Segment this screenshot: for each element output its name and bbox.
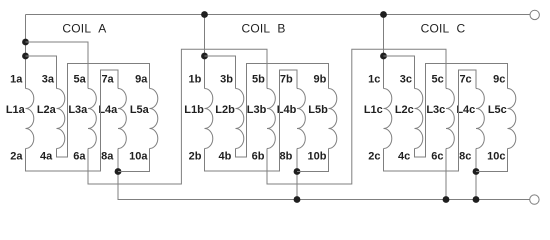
inductor L4b <box>297 89 305 149</box>
terminal T1 (top right) <box>530 10 539 19</box>
wire: 2b to 7b (L1b bottom to L4b top) <box>205 70 298 171</box>
svg-text:5a: 5a <box>74 73 87 85</box>
wire: branch to 3c (L2c top) <box>384 56 415 89</box>
node: junction dot 8b-10b <box>294 168 301 175</box>
node: junction dot feeding 5a branch <box>22 39 29 46</box>
wire: 6c (L3c bottom) down to bottom bus <box>445 149 447 200</box>
wire: 8b (L4b bottom) down to bottom bus <box>296 149 298 200</box>
svg-text:5b: 5b <box>252 73 265 85</box>
svg-text:1b: 1b <box>189 73 202 85</box>
svg-text:2b: 2b <box>189 150 202 162</box>
node: junction dot of 8b branch on bottom bus <box>294 196 301 203</box>
svg-text:7b: 7b <box>280 73 293 85</box>
svg-text:3a: 3a <box>42 73 55 85</box>
wire: 2c to 7c (L1c bottom to L4c top) <box>384 70 477 171</box>
node: junction dot feeding 3b branch <box>201 53 208 60</box>
svg-text:8c: 8c <box>459 150 471 162</box>
node: junction dot feeding 3a branch <box>22 53 29 60</box>
svg-text:10c: 10c <box>487 150 505 162</box>
wire: 4b to 9b (L2b bottom to L5b top) <box>236 64 329 158</box>
node: junction dot of 6c on bottom bus <box>443 196 450 203</box>
wire: branch to 3b (L2b top) <box>205 56 236 89</box>
wire: top bus feed to terminal 1a <box>25 15 27 89</box>
wire: top supply bus <box>26 14 530 16</box>
svg-text:COIL A: COIL A <box>62 22 106 36</box>
svg-text:8a: 8a <box>101 150 114 162</box>
svg-text:L1c: L1c <box>364 104 383 116</box>
node: junction dot 8a-10a <box>115 168 122 175</box>
svg-text:3c: 3c <box>400 73 412 85</box>
inductor L2a <box>57 89 65 149</box>
svg-text:9a: 9a <box>135 73 148 85</box>
inductor L3b <box>267 89 275 149</box>
svg-text:L2b: L2b <box>215 104 235 116</box>
svg-text:6c: 6c <box>431 150 443 162</box>
svg-text:L4a: L4a <box>98 104 118 116</box>
wire: 2a to 7a (L1a bottom to L4a top) <box>26 70 119 171</box>
node: junction dot feeding 3c branch <box>380 53 387 60</box>
svg-text:1a: 1a <box>10 73 23 85</box>
svg-text:5c: 5c <box>432 73 444 85</box>
svg-text:7c: 7c <box>459 73 471 85</box>
inductor L5a <box>150 89 158 149</box>
wire: 6b (L3b bottom) to 5c (L3c top) inter-group link <box>267 49 446 184</box>
node: junction dot on top bus at coil C <box>380 11 387 18</box>
svg-text:10b: 10b <box>308 150 327 162</box>
inductor L4c <box>476 89 484 149</box>
terminal T2 (bottom right) <box>530 195 539 204</box>
svg-text:2c: 2c <box>368 150 380 162</box>
wire: 10c (L5c bottom) to 8c <box>476 149 508 172</box>
wire: 8a (L4a bottom) down to bottom bus <box>117 149 119 200</box>
svg-text:3b: 3b <box>220 73 233 85</box>
svg-text:9b: 9b <box>314 73 327 85</box>
svg-text:9c: 9c <box>493 73 505 85</box>
wire: 4c to 9c (L2c bottom to L5c top) <box>415 64 508 158</box>
svg-text:L3c: L3c <box>426 104 445 116</box>
svg-text:8b: 8b <box>280 150 293 162</box>
svg-text:4c: 4c <box>398 150 410 162</box>
inductor L1a <box>26 89 34 149</box>
inductor L4a <box>118 89 126 149</box>
inductor L5b <box>329 89 337 149</box>
wire: 8c (L4c bottom) down to bottom bus <box>475 149 477 200</box>
wire: top bus feed to terminal 1b <box>204 15 206 89</box>
svg-text:L5c: L5c <box>488 104 507 116</box>
inductor L2b <box>236 89 244 149</box>
inductor L2c <box>415 89 423 149</box>
svg-text:COIL C: COIL C <box>421 22 466 36</box>
node: junction dot 8c-10c <box>473 168 480 175</box>
svg-text:L4c: L4c <box>456 104 475 116</box>
svg-text:10a: 10a <box>129 150 148 162</box>
svg-text:1c: 1c <box>368 73 380 85</box>
svg-text:L3b: L3b <box>247 104 267 116</box>
svg-text:L2c: L2c <box>395 104 414 116</box>
svg-text:L5b: L5b <box>308 104 328 116</box>
svg-text:4b: 4b <box>218 150 231 162</box>
wire: 6a (L3a bottom) to 5b (L3b top) inter-group link <box>88 49 267 184</box>
svg-text:7a: 7a <box>101 73 114 85</box>
wire: 4a to 9a (L2a bottom to L5a top) <box>57 64 150 158</box>
svg-text:L5a: L5a <box>130 104 150 116</box>
svg-text:L1a: L1a <box>6 104 26 116</box>
wire: 10b (L5b bottom) to 8b <box>297 149 329 172</box>
svg-text:2a: 2a <box>10 150 23 162</box>
svg-text:6b: 6b <box>252 150 265 162</box>
inductor L1b <box>205 89 213 149</box>
inductor L5c <box>508 89 516 149</box>
inductor L1c <box>384 89 392 149</box>
wire: branch to 5a (L3a top) <box>26 42 89 89</box>
svg-text:L1b: L1b <box>184 104 204 116</box>
svg-text:4a: 4a <box>40 150 53 162</box>
svg-text:COIL B: COIL B <box>242 22 286 36</box>
svg-text:L3a: L3a <box>68 104 88 116</box>
inductor L3c <box>446 89 454 149</box>
wire: 10a (L5a bottom) to 8a <box>118 149 150 172</box>
wire: bottom return bus <box>118 172 530 200</box>
inductor L3a <box>88 89 96 149</box>
wire: branch to 3a (L2a top) <box>26 56 57 89</box>
node: junction dot of 8c branch on bottom bus <box>473 196 480 203</box>
svg-text:L2a: L2a <box>37 104 57 116</box>
node: junction dot on top bus at coil B <box>201 11 208 18</box>
wire: top bus feed to terminal 1c <box>383 15 385 89</box>
svg-text:6a: 6a <box>73 150 86 162</box>
